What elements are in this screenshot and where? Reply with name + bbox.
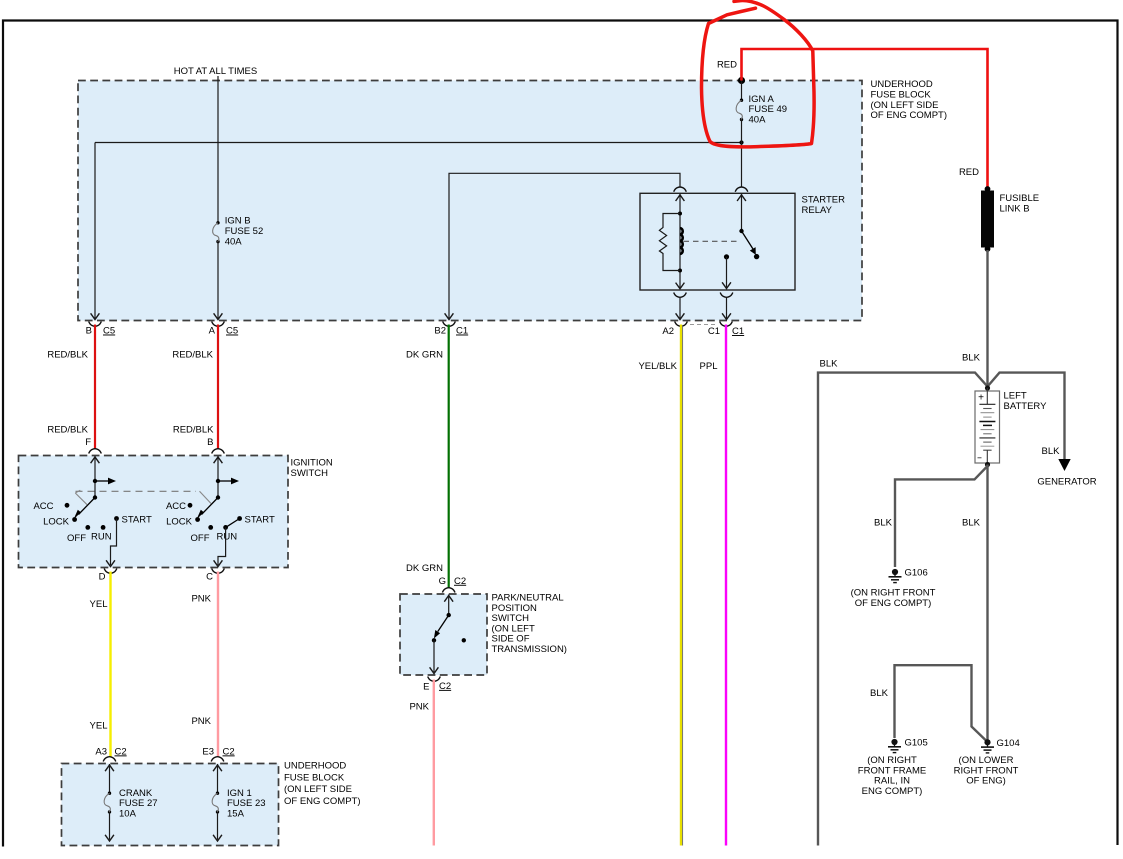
wire PNK from C: [217, 572, 219, 758]
svg-text:YEL/BLK: YEL/BLK: [638, 361, 677, 372]
svg-text:TRANSMISSION): TRANSMISSION): [492, 644, 567, 655]
wire bus y=142.5 to node at fuse 49 output: [95, 142, 742, 144]
svg-text:E3: E3: [202, 746, 214, 757]
label YEL/BLK: [638, 361, 677, 372]
svg-text:DK GRN: DK GRN: [406, 563, 443, 574]
svg-text:GENERATOR: GENERATOR: [1037, 477, 1096, 488]
svg-text:A3: A3: [95, 746, 107, 757]
underhood fuse block label: [871, 79, 948, 121]
svg-text:(ON LEFT SIDE: (ON LEFT SIDE: [871, 100, 939, 111]
relay pin cap right (switch): [735, 187, 748, 192]
ignition bank 2 output to C: [214, 519, 240, 567]
relay switch common contact: [722, 254, 731, 288]
wire relay pin A2 to block edge: [676, 298, 685, 320]
label RED/BLK: [47, 349, 88, 360]
wire PPL from C1: [725, 325, 727, 846]
svg-text:BATTERY: BATTERY: [1004, 401, 1048, 412]
label BLK battery negative: [962, 518, 981, 529]
svg-text:BLK: BLK: [962, 353, 981, 364]
relay resistor: [659, 212, 682, 273]
connector pin G C2: [439, 576, 467, 593]
svg-text:C2: C2: [115, 746, 127, 757]
underhood fuse block (bottom) box: [62, 764, 279, 846]
fuse CRANK FUSE 27 10A: [104, 788, 157, 820]
svg-text:A2: A2: [662, 326, 674, 337]
svg-text:OF ENG COMPT): OF ENG COMPT): [855, 598, 932, 609]
svg-text:LEFT: LEFT: [1004, 391, 1027, 402]
starter relay label: [802, 195, 846, 216]
wire BLK G105-G104 tie: [895, 665, 987, 740]
generator arrow: [1058, 459, 1070, 471]
svg-text:DK GRN: DK GRN: [406, 349, 443, 360]
svg-text:RED/BLK: RED/BLK: [47, 349, 88, 360]
fuse IGN A FUSE 49 40A: [736, 94, 787, 126]
ground G105: [888, 738, 928, 753]
connector pin B (ign): [207, 437, 224, 454]
label G106 location: [851, 588, 936, 609]
connector pin B C5: [86, 322, 116, 337]
label BLK g106 branch: [874, 518, 893, 529]
park/neutral switch internals: [430, 595, 466, 674]
wire hot feed vertical: [217, 76, 219, 223]
svg-text:UNDERHOOD: UNDERHOOD: [871, 79, 933, 90]
svg-text:G: G: [439, 576, 446, 587]
svg-text:PPL: PPL: [700, 361, 718, 372]
svg-text:C1: C1: [456, 326, 468, 337]
svg-text:BLK: BLK: [870, 688, 889, 699]
connector pin A3 C2: [95, 746, 126, 761]
ignition bank 1 output to D: [106, 519, 116, 567]
svg-text:10A: 10A: [119, 809, 137, 820]
svg-text:(ON LEFT SIDE: (ON LEFT SIDE: [284, 784, 352, 795]
label BLK generator branch: [1042, 446, 1061, 457]
label LEFT BATTERY: [1004, 391, 1048, 412]
svg-text:FUSE 23: FUSE 23: [227, 798, 266, 809]
relay armature dashed link: [684, 240, 741, 242]
svg-text:PNK: PNK: [191, 593, 211, 604]
connector pin D: [99, 569, 117, 583]
ignition bank 2 position labels: [166, 501, 275, 544]
label PARK/NEUTRAL POSITION SWITCH: [492, 593, 567, 655]
svg-text:FUSIBLE: FUSIBLE: [1000, 193, 1040, 204]
label HOT AT ALL TIMES: [174, 66, 257, 77]
svg-text:FUSE 52: FUSE 52: [225, 226, 264, 237]
wire DK GRN from B2 to G: [448, 325, 450, 588]
wire ign1 fuse feed: [213, 764, 222, 793]
svg-text:A: A: [209, 326, 216, 337]
battery LEFT BATTERY: [975, 385, 1000, 467]
svg-text:C: C: [206, 572, 213, 583]
wire fuse 49 output to relay: [741, 120, 743, 188]
wire connector B2 riser and bus to relay: [445, 173, 680, 319]
connector pin C1 C1: [708, 322, 744, 338]
label DK GRN lower: [406, 563, 443, 574]
label underhood fuse block bottom: [284, 761, 361, 807]
svg-text:B: B: [86, 326, 92, 337]
svg-text:40A: 40A: [225, 237, 243, 248]
svg-text:BLK: BLK: [962, 518, 981, 529]
svg-text:C5: C5: [226, 326, 238, 337]
connector pin A2: [662, 322, 687, 338]
svg-text:RED/BLK: RED/BLK: [173, 425, 214, 436]
wire BLK to generator: [988, 373, 1065, 460]
svg-text:IGN B: IGN B: [225, 216, 251, 227]
svg-text:ACC: ACC: [166, 501, 186, 512]
relay pin cap left (coil): [674, 187, 687, 192]
label RED/BLK 2: [172, 349, 213, 360]
fuse IGN B FUSE 52 40A: [213, 216, 264, 248]
svg-text:UNDERHOOD: UNDERHOOD: [284, 761, 346, 772]
label IGNITION SWITCH: [291, 458, 333, 479]
svg-text:C1: C1: [732, 326, 744, 337]
ignition switch box: [19, 456, 289, 568]
svg-text:OF ENG): OF ENG): [966, 776, 1006, 787]
svg-text:15A: 15A: [227, 809, 245, 820]
label G104 location: [954, 755, 1019, 787]
svg-text:BLK: BLK: [874, 518, 893, 529]
svg-text:40A: 40A: [749, 115, 767, 126]
svg-text:IGNITION: IGNITION: [291, 458, 333, 469]
svg-text:C2: C2: [223, 746, 235, 757]
svg-text:FUSE BLOCK: FUSE BLOCK: [284, 772, 345, 783]
wire BLK link to battery: [986, 250, 988, 386]
svg-text:C2: C2: [439, 681, 451, 692]
svg-text:BLK: BLK: [820, 359, 839, 370]
label G105 location: [858, 755, 926, 797]
svg-text:RUN: RUN: [217, 532, 238, 543]
ignition bank 1 position contacts: [65, 503, 119, 530]
ground G106: [889, 568, 928, 583]
svg-text:RUN: RUN: [91, 532, 112, 543]
relay pin cup A2: [674, 293, 687, 298]
connector pin E C2: [423, 677, 451, 693]
fuse IGN 1 FUSE 23 15A: [212, 788, 265, 820]
svg-text:CRANK: CRANK: [119, 788, 153, 799]
wire BLK battery negative branch to G106: [895, 466, 988, 567]
node junction fuse49/bus: [739, 140, 743, 144]
annotation red circle around fuse 49: [702, 1, 815, 147]
wire connector B drop: [91, 143, 100, 320]
svg-text:G106: G106: [905, 568, 928, 579]
svg-text:IGN 1: IGN 1: [227, 788, 252, 799]
label PNK: [191, 593, 211, 604]
wire RED/BLK from B to F: [94, 325, 96, 449]
wire BLK long ground run (left): [818, 373, 988, 846]
wire fuse 49 feed: [741, 81, 743, 101]
wire RED battery feed: [742, 49, 988, 188]
svg-text:E: E: [423, 682, 429, 693]
fusible link B: [981, 186, 1039, 252]
svg-text:ENG COMPT): ENG COMPT): [862, 786, 923, 797]
wire ign1 fuse output: [213, 812, 222, 841]
svg-text:START: START: [122, 515, 152, 526]
connector pin A C5: [209, 322, 239, 337]
ignition bank 2 position contacts: [188, 503, 242, 530]
relay pin cup C1: [720, 293, 733, 298]
connector pin E3 C2: [202, 746, 234, 761]
wire YEL/BLK from A2: [681, 325, 683, 846]
label BLK left run: [820, 359, 839, 370]
svg-text:F: F: [85, 437, 91, 448]
connector pin C: [206, 569, 224, 583]
label RED/BLK lower: [47, 425, 88, 436]
relay switch wire: [737, 194, 746, 231]
label RED at link: [959, 167, 979, 178]
ground G104: [981, 738, 1020, 753]
wire relay pin C1 to block edge: [722, 298, 731, 320]
svg-text:LINK B: LINK B: [1000, 203, 1030, 214]
svg-text:START: START: [245, 515, 275, 526]
wire YEL from D: [109, 572, 111, 758]
svg-text:G105: G105: [905, 738, 928, 749]
label RED top: [717, 60, 737, 71]
starter relay box: [640, 193, 795, 290]
svg-text:LOCK: LOCK: [43, 517, 70, 528]
wire PNK from E: [433, 680, 435, 846]
svg-text:RED: RED: [959, 167, 979, 178]
svg-text:G104: G104: [997, 738, 1020, 749]
ignition switch bank 1 feed/blade: [74, 456, 117, 520]
svg-text:RED/BLK: RED/BLK: [172, 349, 213, 360]
svg-text:RELAY: RELAY: [802, 205, 833, 216]
svg-text:+: +: [978, 393, 984, 404]
relay coil wire: [676, 194, 685, 289]
svg-text:FUSE 27: FUSE 27: [119, 798, 158, 809]
label YEL lower: [90, 721, 108, 732]
svg-text:C1: C1: [708, 326, 720, 337]
connector pin B2 C1: [434, 322, 468, 337]
ignition bank 1 position labels: [33, 501, 152, 544]
wire BLK battery negative to G104: [986, 465, 988, 741]
svg-text:FUSE 49: FUSE 49: [749, 104, 788, 115]
wire RED/BLK from A to B: [217, 325, 219, 449]
relay switch blade: [739, 229, 759, 260]
svg-text:SWITCH: SWITCH: [291, 468, 329, 479]
svg-text:YEL: YEL: [90, 599, 108, 610]
node RED junction at box edge: [738, 77, 745, 84]
label BLK g105: [870, 688, 889, 699]
label GENERATOR: [1037, 477, 1096, 488]
svg-text:HOT AT ALL TIMES: HOT AT ALL TIMES: [174, 66, 257, 77]
label YEL: [90, 599, 108, 610]
svg-text:PNK: PNK: [191, 716, 211, 727]
svg-text:OF ENG COMPT): OF ENG COMPT): [871, 110, 948, 121]
label PNK park/neutral: [409, 702, 429, 713]
svg-text:BLK: BLK: [1042, 446, 1061, 457]
svg-text:(ON RIGHT FRONT: (ON RIGHT FRONT: [851, 588, 936, 599]
svg-text:C2: C2: [454, 576, 466, 587]
connector dashed tie A2-C1: [690, 324, 717, 326]
wire crank fuse feed: [105, 764, 114, 793]
svg-text:C5: C5: [103, 326, 115, 337]
svg-text:YEL: YEL: [90, 721, 108, 732]
label BLK above battery: [962, 353, 981, 364]
connector pin F: [85, 437, 101, 454]
svg-text:RED: RED: [717, 60, 737, 71]
svg-text:D: D: [99, 572, 106, 583]
label PPL: [700, 361, 718, 372]
label DK GRN: [406, 349, 443, 360]
svg-text:OFF: OFF: [67, 533, 86, 544]
svg-text:FUSE BLOCK: FUSE BLOCK: [871, 89, 932, 100]
svg-text:RED/BLK: RED/BLK: [47, 425, 88, 436]
svg-text:LOCK: LOCK: [166, 517, 193, 528]
svg-text:IGN A: IGN A: [749, 94, 775, 105]
svg-text:B2: B2: [434, 326, 446, 337]
relay coil: [680, 228, 683, 254]
svg-text:ACC: ACC: [33, 501, 53, 512]
ignition switch bank 2 feed/blade: [197, 456, 240, 520]
wire below fuse 52 to connector A: [214, 242, 223, 320]
svg-text:B: B: [207, 437, 213, 448]
label RED/BLK 2 lower: [173, 425, 214, 436]
svg-text:OFF: OFF: [191, 533, 210, 544]
park/neutral position switch box: [400, 594, 487, 675]
svg-text:STARTER: STARTER: [802, 195, 846, 206]
underhood fuse block (top): [78, 81, 862, 321]
ignition armature dashed link: [75, 490, 211, 505]
svg-text:OF ENG COMPT): OF ENG COMPT): [284, 796, 361, 807]
wire crank fuse output: [105, 812, 114, 841]
label PNK lower: [191, 716, 211, 727]
svg-text:PNK: PNK: [409, 702, 429, 713]
